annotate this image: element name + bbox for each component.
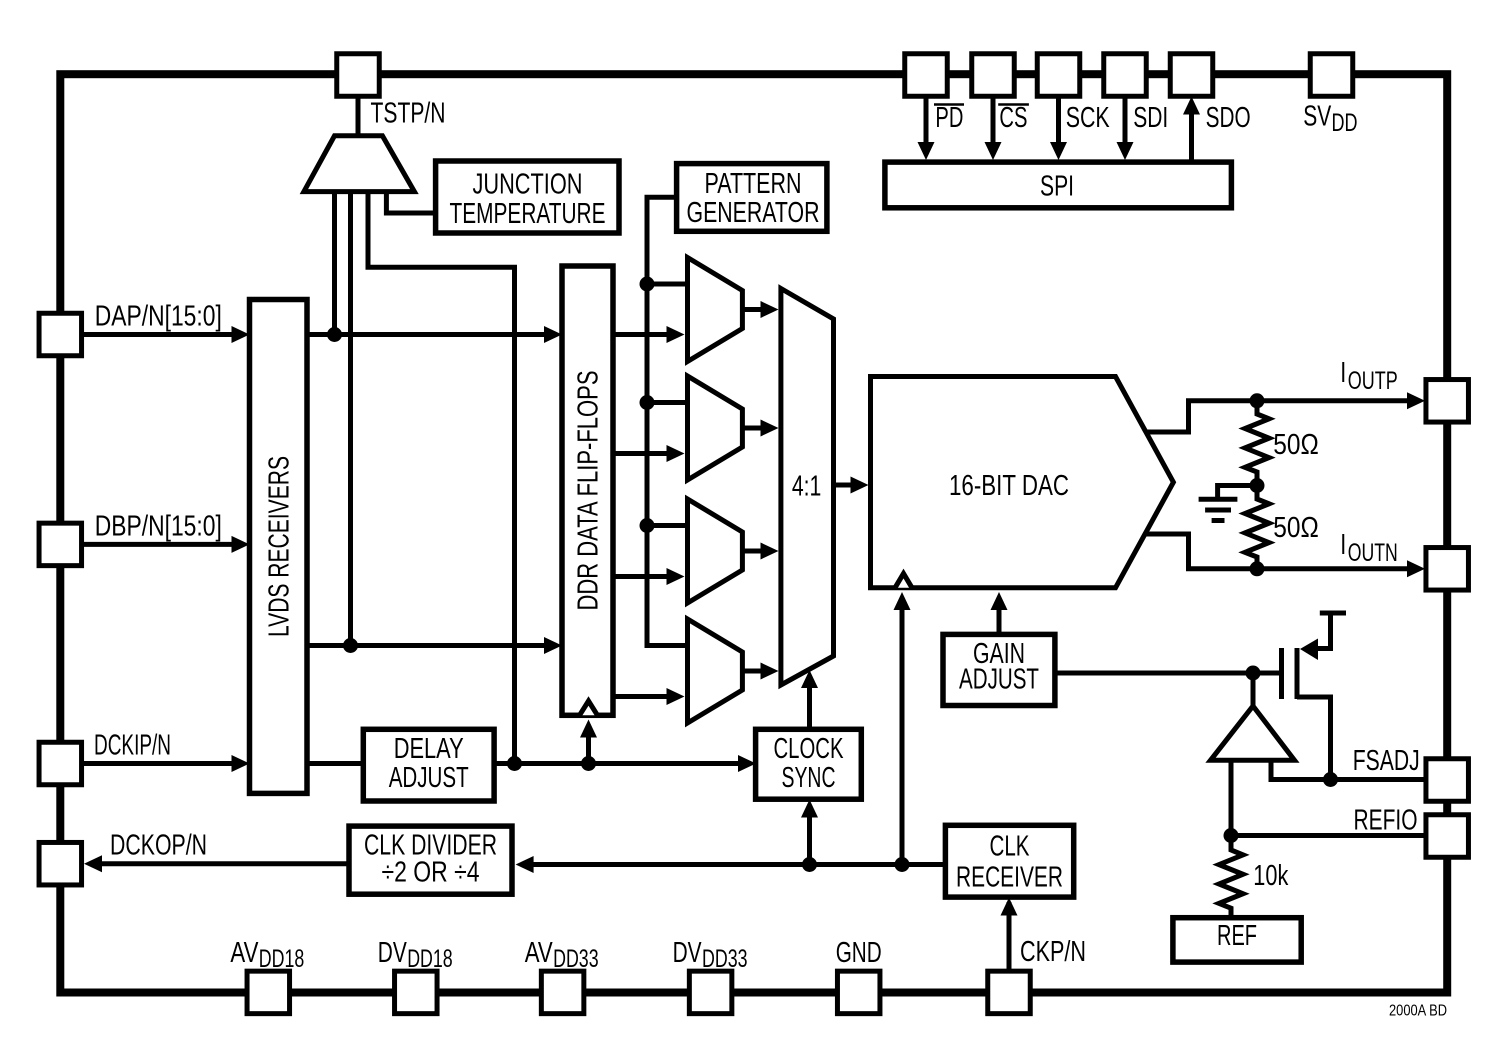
pin CKP/N xyxy=(988,971,1031,1014)
svg-text:DCKIP/N: DCKIP/N xyxy=(94,730,171,762)
svg-text:DD: DD xyxy=(1332,109,1358,137)
svg-text:LVDS RECEIVERS: LVDS RECEIVERS xyxy=(263,456,295,637)
block GAIN ADJUST xyxy=(943,634,1055,705)
wire 4:1 mux to DAC xyxy=(834,483,855,488)
wire gain adjust to transistor gate xyxy=(1055,671,1279,676)
svg-text:SDI: SDI xyxy=(1133,102,1168,134)
pin SVDD xyxy=(1310,54,1353,97)
pin CS xyxy=(972,54,1015,97)
pin SCK xyxy=(1037,54,1080,97)
wire clk line to DAC clock input xyxy=(900,598,905,865)
pin AVDD18 xyxy=(247,971,289,1014)
block SPI xyxy=(885,162,1232,208)
wire DDR to buffer 4 xyxy=(613,694,670,699)
pin DVDD18 xyxy=(395,971,438,1014)
junction pattern line / buffer 1 xyxy=(640,277,655,292)
pin DCKIP xyxy=(39,742,82,785)
svg-text:PATTERN: PATTERN xyxy=(705,168,802,200)
DAC 16-BIT xyxy=(871,377,1174,588)
junction clk line / DAC clock xyxy=(895,857,910,872)
junction IOUTP / resistor xyxy=(1250,393,1265,408)
svg-text:÷2 OR ÷4: ÷2 OR ÷4 xyxy=(382,857,480,889)
pin SDI xyxy=(1104,54,1147,97)
transistor MOSFET arrow xyxy=(1300,639,1318,661)
DAC clock triangle xyxy=(895,574,912,588)
svg-text:REF: REF xyxy=(1217,920,1257,952)
op-amp reference buffer xyxy=(1211,706,1295,760)
svg-text:I: I xyxy=(1340,357,1346,389)
svg-text:PD: PD xyxy=(935,102,963,134)
wire buffer 1 to 4:1 mux xyxy=(742,307,764,312)
wire pattern generator bus xyxy=(647,197,686,645)
wire clk divider to DCKOP pin xyxy=(98,861,349,866)
transistor MOSFET gate bar xyxy=(1279,648,1284,699)
svg-text:AV: AV xyxy=(525,937,553,969)
junction clk line / clock sync xyxy=(802,857,817,872)
wire clock to DDR clock input xyxy=(586,725,591,764)
junction delay line / test mux C xyxy=(507,756,522,771)
block DDR DATA FLIP-FLOPS xyxy=(562,266,613,715)
wire buffer 4 to 4:1 mux xyxy=(742,669,764,674)
wire CKP/N pin to clk receiver xyxy=(1007,902,1012,971)
wire pattern tap to buffer 1 xyxy=(647,282,686,287)
pin DAP xyxy=(39,313,82,356)
svg-text:SYNC: SYNC xyxy=(782,762,836,794)
svg-text:DD18: DD18 xyxy=(259,945,305,973)
wire REFIO line to pin xyxy=(1231,833,1427,838)
svg-text:CS: CS xyxy=(999,102,1027,134)
pin DCKOP xyxy=(39,842,82,885)
wire buffer 3 to 4:1 mux xyxy=(742,549,764,554)
pin IOUTN xyxy=(1426,548,1469,591)
svg-text:DV: DV xyxy=(378,937,407,969)
wire SCK pin to SPI xyxy=(1056,96,1061,145)
svg-text:16-BIT DAC: 16-BIT DAC xyxy=(949,470,1069,502)
svg-text:SDO: SDO xyxy=(1206,102,1251,134)
wire DAC lower output to IOUTN pin xyxy=(1145,534,1411,569)
svg-text:CLK: CLK xyxy=(990,831,1030,863)
wire test mux to junction temperature xyxy=(386,192,435,213)
svg-text:OUTN: OUTN xyxy=(1348,539,1398,567)
wire clock sync to 4:1 mux xyxy=(807,677,812,729)
junction delay line / DDR clock xyxy=(581,756,596,771)
svg-text:CLOCK: CLOCK xyxy=(774,733,844,765)
wire buffer 2 to 4:1 mux xyxy=(742,426,764,431)
svg-text:DELAY: DELAY xyxy=(394,733,464,765)
buffer amplifier 4 xyxy=(688,619,743,723)
svg-text:10k: 10k xyxy=(1253,860,1288,892)
wire op-amp input to REFIO xyxy=(1229,760,1234,835)
block PATTERN GENERATOR xyxy=(677,164,827,232)
pin PD xyxy=(905,54,948,97)
junction pattern line / buffer 3 xyxy=(640,518,655,533)
svg-text:REFIO: REFIO xyxy=(1354,804,1418,836)
svg-text:DD18: DD18 xyxy=(407,945,453,973)
ground xyxy=(1218,483,1257,488)
transistor MOSFET source to FSADJ line xyxy=(1297,697,1331,780)
svg-text:50Ω: 50Ω xyxy=(1273,512,1319,544)
transistor MOSFET channel bar xyxy=(1295,648,1300,699)
wire test mux output C to clock line xyxy=(368,192,515,764)
pin SDO xyxy=(1170,54,1213,97)
buffer amplifier 1 xyxy=(688,258,743,362)
junction REFIO / 10k xyxy=(1224,828,1239,843)
pin IOUTP xyxy=(1426,380,1469,423)
wire clk line to clock sync bottom xyxy=(807,805,812,865)
resistor 50ohm lower xyxy=(1245,486,1269,569)
block DELAY ADJUST xyxy=(363,729,494,801)
svg-text:50Ω: 50Ω xyxy=(1273,429,1319,461)
wire pattern tap to buffer 2 xyxy=(647,400,686,405)
svg-text:GND: GND xyxy=(836,937,882,969)
resistor 50ohm upper xyxy=(1245,401,1269,486)
wire CS pin to SPI xyxy=(991,96,996,145)
wire pattern tap to buffer 3 xyxy=(647,523,686,528)
DDR clock triangle xyxy=(580,701,598,715)
buffer amplifier 3 xyxy=(688,499,743,603)
wire DBP input to LVDS receivers xyxy=(82,542,234,547)
svg-text:CKP/N: CKP/N xyxy=(1020,936,1086,968)
wire LVDS to DDR flip-flops data B xyxy=(307,643,547,648)
wire gain adjust to DAC xyxy=(997,598,1002,634)
wire TSTP/N pin to test mux xyxy=(356,96,361,138)
svg-text:DAP/N[15:0]: DAP/N[15:0] xyxy=(95,301,222,333)
junction test mux A / DAP line xyxy=(327,327,342,342)
svg-text:DV: DV xyxy=(673,937,702,969)
wire DAC upper output to IOUTP pin xyxy=(1145,401,1410,432)
wire DCKIP input to LVDS receivers xyxy=(82,761,234,766)
test mux trapezoid xyxy=(304,136,415,192)
wire test mux output B to second data line xyxy=(348,192,353,646)
wire LVDS to DDR flip-flops data A xyxy=(307,332,547,337)
resistor 10k xyxy=(1219,836,1243,918)
wire SPI to SDO pin xyxy=(1189,110,1194,162)
svg-text:SCK: SCK xyxy=(1066,102,1110,134)
pin REFIO xyxy=(1426,815,1469,858)
svg-text:RECEIVER: RECEIVER xyxy=(956,861,1063,893)
junction IOUTN / resistor xyxy=(1250,561,1265,576)
junction pattern line / buffer 2 xyxy=(640,395,655,410)
svg-text:SPI: SPI xyxy=(1040,171,1074,203)
block REF xyxy=(1173,918,1301,962)
svg-text:DDR DATA FLIP-FLOPS: DDR DATA FLIP-FLOPS xyxy=(573,371,605,611)
wire DDR to buffer 3 xyxy=(613,574,670,579)
wire delay adjust to clock sync xyxy=(494,761,742,766)
svg-text:SV: SV xyxy=(1303,101,1331,133)
transistor MOSFET drain to supply xyxy=(1314,613,1331,649)
wire DDR to buffer 2 xyxy=(613,451,670,456)
wire delay line DCKIP clock xyxy=(307,761,363,766)
pin FSADJ xyxy=(1426,759,1469,802)
pin TSTP/N xyxy=(337,54,380,97)
block CLK RECEIVER xyxy=(945,825,1073,897)
svg-text:GENERATOR: GENERATOR xyxy=(687,197,820,229)
svg-text:FSADJ: FSADJ xyxy=(1353,745,1420,777)
svg-text:4:1: 4:1 xyxy=(792,470,822,502)
junction test mux B / data line B xyxy=(343,638,358,653)
wire test mux output A to DAP data line xyxy=(332,192,337,335)
wire dot to op-amp xyxy=(1251,673,1256,707)
junction resistors / ground xyxy=(1250,478,1265,493)
block JUNCTION TEMPERATURE xyxy=(436,161,619,233)
junction gate line / op-amp xyxy=(1246,666,1261,681)
svg-text:DBP/N[15:0]: DBP/N[15:0] xyxy=(95,510,222,542)
wire op-amp to FSADJ pin xyxy=(1271,760,1427,779)
svg-text:TSTP/N: TSTP/N xyxy=(371,98,446,130)
pin DVDD33 xyxy=(689,971,732,1014)
svg-text:I: I xyxy=(1340,529,1346,561)
buffer amplifier 2 xyxy=(688,376,743,480)
block LVDS RECEIVERS xyxy=(250,300,308,794)
wire clk divider line xyxy=(530,862,945,867)
svg-text:ADJUST: ADJUST xyxy=(389,762,469,794)
wire SDI pin to SPI xyxy=(1123,96,1128,145)
svg-text:DD33: DD33 xyxy=(702,945,748,973)
svg-text:JUNCTION: JUNCTION xyxy=(473,169,583,201)
svg-text:DD33: DD33 xyxy=(553,945,599,973)
block CLK DIVIDER xyxy=(349,826,512,894)
svg-text:TEMPERATURE: TEMPERATURE xyxy=(450,198,606,230)
svg-text:AV: AV xyxy=(230,937,258,969)
block CLOCK SYNC xyxy=(756,729,862,799)
pin AVDD33 xyxy=(541,971,584,1014)
svg-text:2000A BD: 2000A BD xyxy=(1389,1003,1447,1020)
mux 4:1 xyxy=(781,289,834,686)
wire PD pin to SPI xyxy=(924,96,929,145)
junction FSADJ / source xyxy=(1323,772,1338,787)
svg-text:DCKOP/N: DCKOP/N xyxy=(110,830,207,862)
svg-text:ADJUST: ADJUST xyxy=(959,664,1039,696)
pin DBP xyxy=(39,523,82,566)
svg-text:OUTP: OUTP xyxy=(1348,367,1398,395)
wire DAP input to LVDS receivers xyxy=(82,332,234,337)
pin GND xyxy=(837,971,880,1014)
wire DDR to buffer 1 xyxy=(613,332,670,337)
